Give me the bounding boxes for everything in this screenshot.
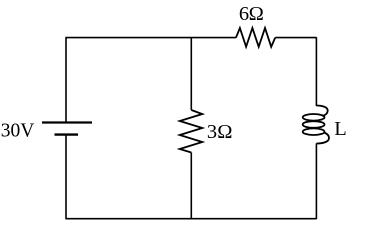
inductor L1 bottom hook <box>316 133 329 144</box>
inductor L1 loop 2 <box>303 121 325 128</box>
wire middle branch upper (top node down to 3ohm resistor) <box>190 37 192 110</box>
inductor L1 top hook <box>316 106 327 117</box>
svg-text:Ω: Ω <box>217 121 232 143</box>
wire top-left segment (node A to R 6ohm) <box>66 37 237 39</box>
wire top-right segment (R 6ohm to inductor branch) <box>275 37 316 39</box>
battery V1 30V long plate (+) <box>42 121 92 123</box>
inductor L1 loop 1 <box>303 114 325 121</box>
wire bottom (left node to right node) <box>66 218 317 220</box>
svg-text:L: L <box>334 118 347 140</box>
battery V1 30V short plate (-) <box>55 133 79 135</box>
inductor L1 loop 3 <box>303 128 325 135</box>
wire left branch upper (top node down to battery + plate) <box>65 37 67 122</box>
wire right branch upper (top node down to inductor) <box>315 37 317 106</box>
svg-text:Ω: Ω <box>249 3 264 25</box>
wire left branch lower (battery - plate down to bottom node) <box>65 135 67 219</box>
svg-text:3: 3 <box>207 121 217 143</box>
wire middle branch lower (3ohm resistor down to bottom node) <box>190 153 192 220</box>
svg-text:30V: 30V <box>1 120 35 141</box>
wire right branch lower (inductor down to bottom node) <box>315 143 317 219</box>
resistor R1 6ohm <box>236 28 275 47</box>
resistor R2 3ohm <box>180 110 203 153</box>
